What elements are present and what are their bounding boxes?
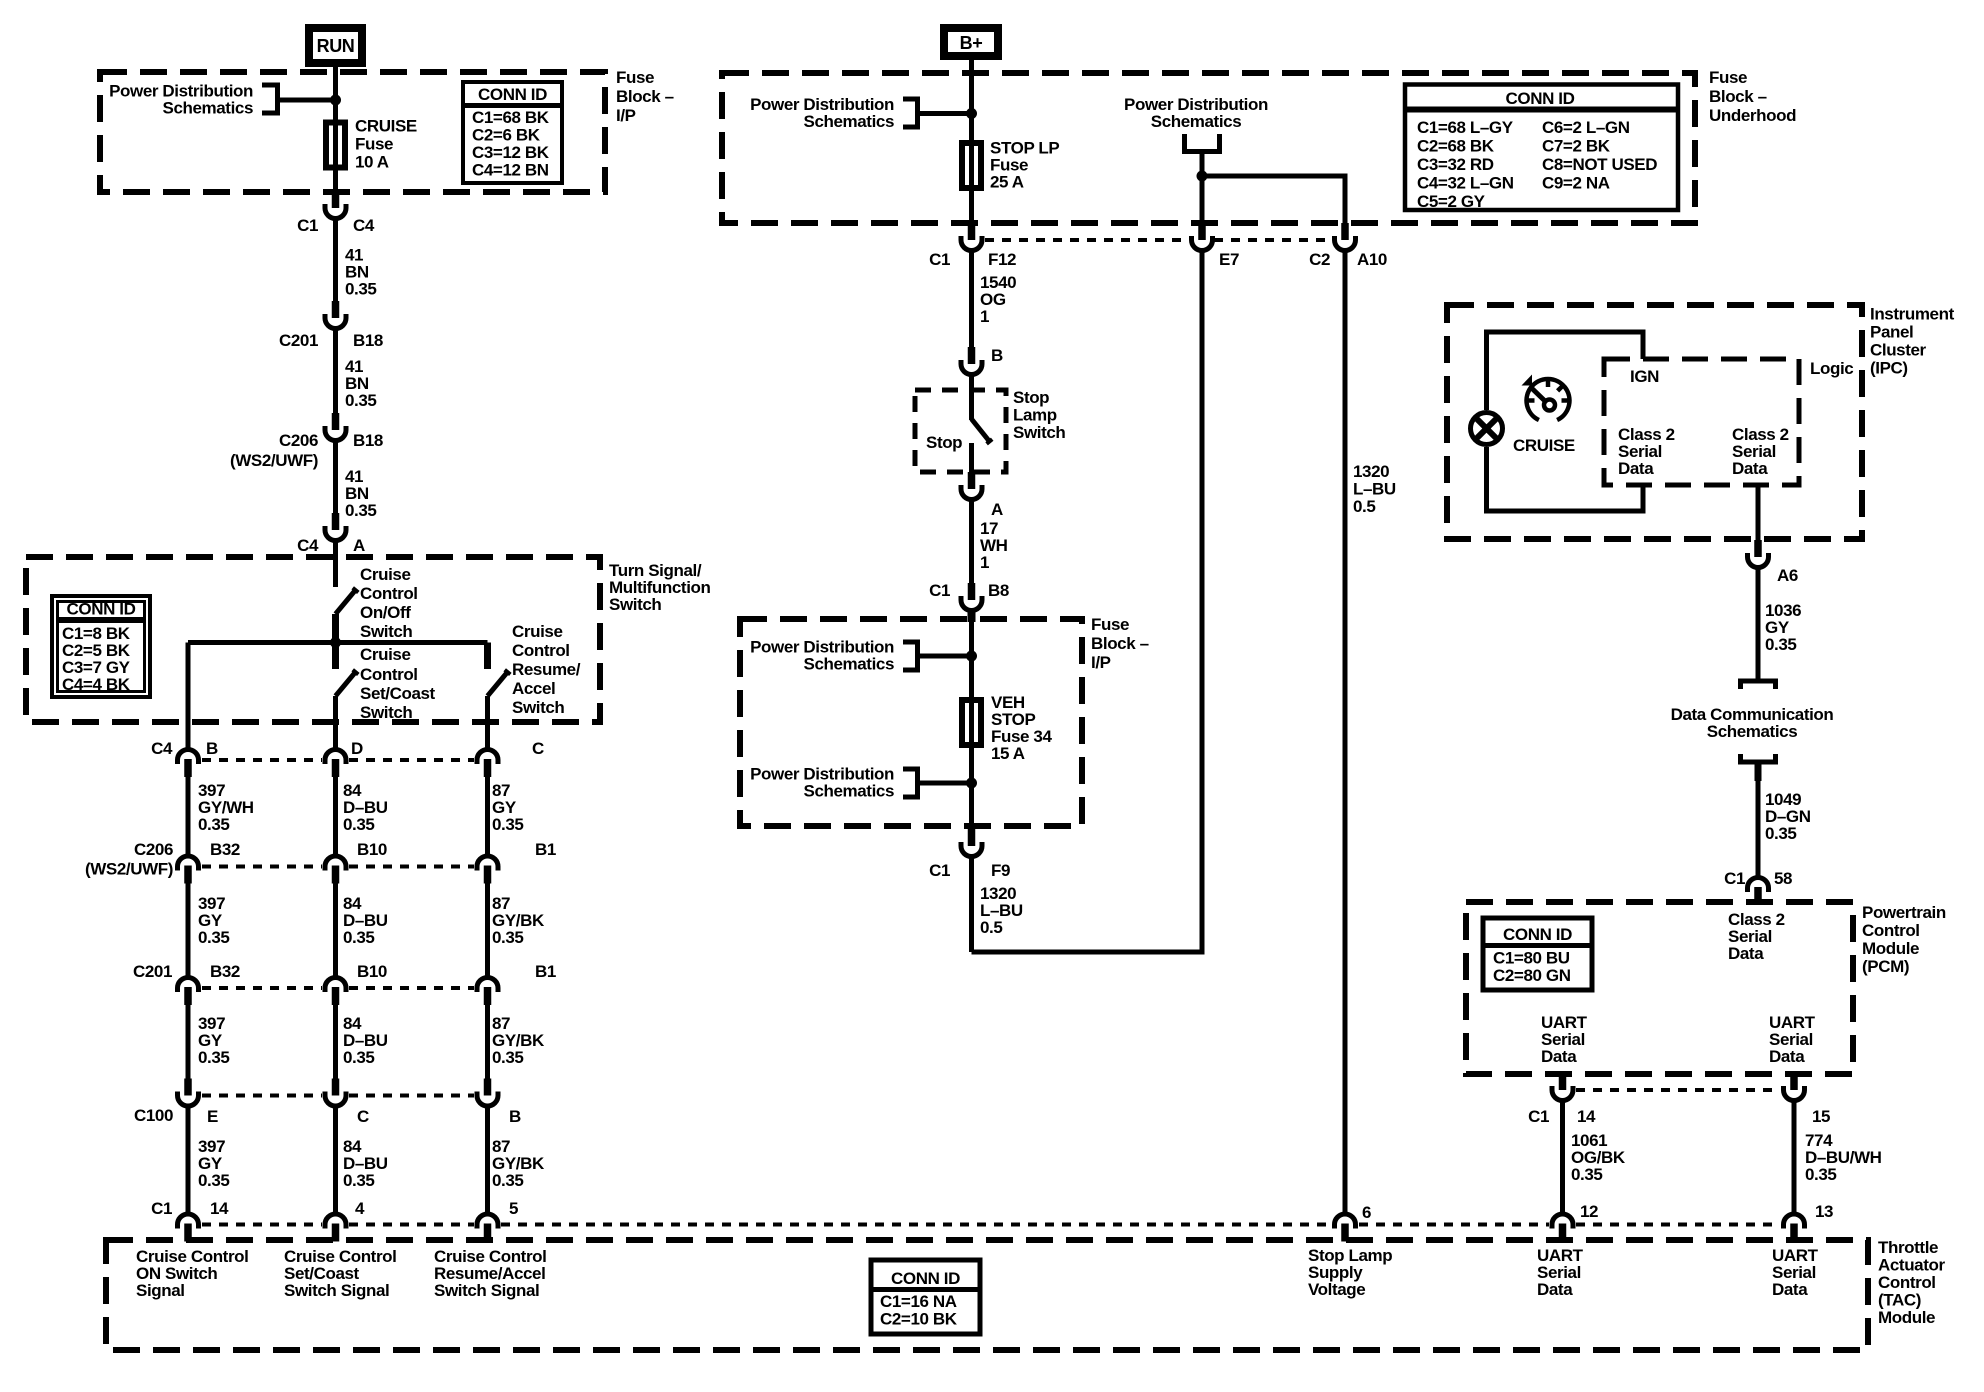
svg-text:C2=68 BK: C2=68 BK [1417,137,1495,156]
svg-text:C1: C1 [1528,1107,1549,1126]
svg-text:4: 4 [355,1199,365,1218]
svg-text:1: 1 [980,307,989,326]
svg-text:Data: Data [1772,1280,1808,1299]
svg-text:Switch Signal: Switch Signal [434,1281,539,1300]
svg-text:C1: C1 [929,250,950,269]
svg-text:Control: Control [360,584,418,603]
svg-text:Fuse: Fuse [355,135,393,154]
svg-text:Control: Control [512,641,570,660]
svg-text:10 A: 10 A [355,153,389,172]
svg-text:0.35: 0.35 [1765,824,1797,843]
svg-text:0.35: 0.35 [198,1048,230,1067]
svg-text:A6: A6 [1777,566,1798,585]
svg-text:B32: B32 [210,840,240,859]
svg-text:Switch: Switch [360,703,412,722]
svg-text:Switch: Switch [609,595,661,614]
svg-text:C1: C1 [929,581,950,600]
svg-text:C4=12 BN: C4=12 BN [472,161,549,180]
svg-text:C1=16 NA: C1=16 NA [880,1292,957,1311]
svg-text:Schematics: Schematics [163,99,254,118]
svg-text:Signal: Signal [136,1281,185,1300]
svg-text:Lamp: Lamp [1013,406,1057,425]
svg-text:Data: Data [1618,459,1654,478]
svg-text:0.35: 0.35 [198,928,230,947]
svg-text:Schematics: Schematics [804,112,895,131]
svg-text:C1: C1 [297,216,318,235]
svg-text:Fuse: Fuse [1091,615,1129,634]
svg-text:Schematics: Schematics [804,655,895,674]
svg-text:Module: Module [1878,1308,1935,1327]
svg-text:B18: B18 [353,331,383,350]
svg-text:0.35: 0.35 [492,815,524,834]
svg-text:E: E [207,1107,218,1126]
svg-text:C1: C1 [1724,869,1745,888]
svg-text:Actuator: Actuator [1878,1256,1945,1275]
svg-text:B32: B32 [210,962,240,981]
svg-text:RUN: RUN [317,36,355,56]
svg-text:(PCM): (PCM) [1862,957,1909,976]
svg-text:C4: C4 [297,536,319,555]
svg-text:C8=NOT USED: C8=NOT USED [1542,155,1657,174]
svg-text:Throttle: Throttle [1878,1238,1938,1257]
svg-text:0.35: 0.35 [1571,1165,1603,1184]
svg-text:C3=32 RD: C3=32 RD [1417,155,1494,174]
svg-text:C4=32 L–GN: C4=32 L–GN [1417,174,1514,193]
svg-text:0.35: 0.35 [343,815,375,834]
svg-text:CONN ID: CONN ID [1503,925,1572,944]
svg-text:C1: C1 [151,1199,172,1218]
svg-text:Control: Control [1862,921,1920,940]
svg-text:B: B [991,346,1003,365]
svg-text:Set/Coast: Set/Coast [360,684,436,703]
svg-text:C100: C100 [134,1106,173,1125]
svg-text:CRUISE: CRUISE [355,117,417,136]
svg-text:B1: B1 [535,962,556,981]
svg-text:IGN: IGN [1630,367,1659,386]
svg-text:0.5: 0.5 [1353,497,1375,516]
svg-text:Panel: Panel [1870,323,1913,342]
svg-text:Schematics: Schematics [804,782,895,801]
svg-text:Switch: Switch [360,622,412,641]
svg-text:(WS2/UWF): (WS2/UWF) [85,860,173,879]
svg-text:Powertrain: Powertrain [1862,903,1946,922]
svg-text:14: 14 [210,1199,229,1218]
svg-text:B1: B1 [535,840,556,859]
svg-text:0.5: 0.5 [980,918,1002,937]
svg-text:(WS2/UWF): (WS2/UWF) [230,451,318,470]
svg-text:C9=2 NA: C9=2 NA [1542,174,1610,193]
svg-text:Data: Data [1728,944,1764,963]
svg-text:On/Off: On/Off [360,603,411,622]
svg-text:25 A: 25 A [990,173,1024,192]
svg-text:D: D [351,739,363,758]
svg-text:Logic: Logic [1810,359,1853,378]
svg-text:Resume/: Resume/ [512,660,581,679]
svg-text:CONN ID: CONN ID [67,600,136,619]
svg-text:5: 5 [509,1199,518,1218]
svg-text:0.35: 0.35 [492,928,524,947]
svg-text:Cruise: Cruise [360,565,411,584]
svg-text:6: 6 [1362,1203,1371,1222]
svg-text:Cluster: Cluster [1870,341,1927,360]
svg-text:(IPC): (IPC) [1870,359,1908,378]
svg-text:B: B [206,739,218,758]
svg-text:Module: Module [1862,939,1919,958]
svg-text:Schematics: Schematics [1151,112,1242,131]
svg-text:C3=12 BK: C3=12 BK [472,143,550,162]
svg-text:Accel: Accel [512,679,555,698]
svg-text:C2=80 GN: C2=80 GN [1493,966,1571,985]
svg-text:Fuse: Fuse [1709,68,1747,87]
svg-text:B8: B8 [988,581,1009,600]
svg-text:Block –: Block – [1091,634,1149,653]
svg-text:Block –: Block – [1709,87,1767,106]
svg-text:0.35: 0.35 [1765,635,1797,654]
svg-text:0.35: 0.35 [343,1171,375,1190]
svg-text:B18: B18 [353,431,383,450]
svg-text:CONN ID: CONN ID [891,1269,960,1288]
svg-text:C2=10 BK: C2=10 BK [880,1310,958,1329]
svg-text:C2: C2 [1309,250,1330,269]
svg-text:C5=2 GY: C5=2 GY [1417,192,1486,211]
svg-text:CONN ID: CONN ID [478,85,547,104]
svg-text:B10: B10 [357,840,387,859]
svg-text:Control: Control [1878,1273,1936,1292]
svg-text:1: 1 [980,553,989,572]
svg-text:C2=6 BK: C2=6 BK [472,126,541,145]
svg-text:Data: Data [1769,1047,1805,1066]
svg-text:C1=68 L–GY: C1=68 L–GY [1417,118,1514,137]
svg-text:C1=80 BU: C1=80 BU [1493,949,1570,968]
svg-text:0.35: 0.35 [345,280,377,299]
svg-text:I/P: I/P [1091,653,1111,672]
svg-text:0.35: 0.35 [345,391,377,410]
svg-text:A: A [991,500,1003,519]
svg-text:F9: F9 [991,861,1010,880]
svg-text:C: C [532,739,544,758]
svg-text:Control: Control [360,665,418,684]
svg-text:B10: B10 [357,962,387,981]
svg-text:14: 14 [1577,1107,1596,1126]
svg-text:Stop: Stop [926,433,962,452]
svg-text:Switch: Switch [1013,423,1065,442]
svg-text:A10: A10 [1357,250,1387,269]
svg-text:Block –: Block – [616,87,674,106]
svg-text:13: 13 [1815,1202,1833,1221]
svg-text:C1: C1 [929,861,950,880]
svg-text:I/P: I/P [616,106,636,125]
svg-text:0.35: 0.35 [198,815,230,834]
svg-text:C4=4 BK: C4=4 BK [62,675,131,694]
svg-text:A: A [353,536,365,555]
svg-text:Fuse: Fuse [616,68,654,87]
svg-text:C7=2 BK: C7=2 BK [1542,137,1611,156]
svg-text:0.35: 0.35 [198,1171,230,1190]
svg-text:E7: E7 [1219,250,1239,269]
svg-text:0.35: 0.35 [343,928,375,947]
svg-text:12: 12 [1580,1202,1598,1221]
svg-text:CRUISE: CRUISE [1513,436,1575,455]
svg-text:C4: C4 [353,216,375,235]
svg-text:15 A: 15 A [991,744,1025,763]
svg-text:C201: C201 [133,962,172,981]
svg-text:Instrument: Instrument [1870,305,1955,324]
svg-text:C1=68 BK: C1=68 BK [472,108,550,127]
svg-text:0.35: 0.35 [1805,1165,1837,1184]
svg-text:Schematics: Schematics [1707,722,1798,741]
svg-text:F12: F12 [988,250,1016,269]
svg-text:Data: Data [1732,459,1768,478]
svg-text:Underhood: Underhood [1709,106,1796,125]
svg-text:Cruise: Cruise [512,622,563,641]
svg-text:Data: Data [1537,1280,1573,1299]
svg-text:C206: C206 [279,431,318,450]
svg-text:B+: B+ [960,33,983,53]
svg-text:Voltage: Voltage [1308,1280,1365,1299]
svg-text:Switch: Switch [512,698,564,717]
svg-text:0.35: 0.35 [492,1048,524,1067]
svg-text:B: B [509,1107,521,1126]
svg-text:Cruise: Cruise [360,645,411,664]
svg-text:1320: 1320 [1353,462,1389,481]
svg-text:L–BU: L–BU [1353,480,1396,499]
svg-text:(TAC): (TAC) [1878,1291,1921,1310]
svg-text:Data: Data [1541,1047,1577,1066]
svg-text:0.35: 0.35 [492,1171,524,1190]
svg-text:C6=2 L–GN: C6=2 L–GN [1542,118,1630,137]
svg-text:C: C [357,1107,369,1126]
svg-text:58: 58 [1774,869,1792,888]
svg-text:Stop: Stop [1013,388,1049,407]
svg-text:0.35: 0.35 [343,1048,375,1067]
svg-text:0.35: 0.35 [345,501,377,520]
svg-text:C4: C4 [151,739,173,758]
svg-text:C206: C206 [134,840,173,859]
svg-text:CONN ID: CONN ID [1506,89,1575,108]
svg-text:C201: C201 [279,331,318,350]
svg-text:15: 15 [1812,1107,1830,1126]
svg-text:Switch Signal: Switch Signal [284,1281,389,1300]
